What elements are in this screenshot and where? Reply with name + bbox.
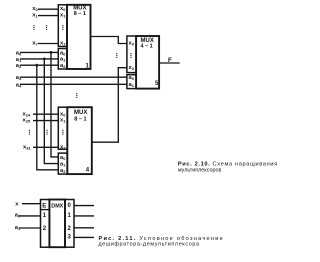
wire x31 to U4 [33, 146, 58, 148]
svg-text:a2: a2 [60, 63, 66, 69]
demux D1 (DMX) [41, 200, 75, 248]
svg-text:8 – 1: 8 – 1 [74, 116, 86, 122]
ellipsis dots wires x24..x31 [46, 130, 47, 135]
svg-text:x1: x1 [32, 13, 38, 19]
wire a1 bus [20, 58, 58, 60]
svg-text:a1: a1 [129, 82, 135, 88]
junction a1 branch [43, 58, 46, 61]
U5 pin dots [130, 53, 131, 58]
U1 pin dots [62, 25, 63, 30]
svg-text:a1: a1 [60, 57, 66, 63]
caption figure 2.11 [99, 236, 224, 248]
U5 pin x0 [129, 41, 160, 88]
ellipsis dots wires x0..x7 [46, 25, 47, 30]
svg-text:4 – 1: 4 – 1 [141, 44, 153, 50]
wire U1 output to U5 x0 [91, 37, 127, 44]
wire a2 vertical to U4 [37, 65, 59, 170]
ellipsis dots between U1 and U4 [76, 93, 77, 98]
svg-text:x0: x0 [129, 41, 135, 47]
label x7 input [32, 41, 38, 47]
wire a0 bus [20, 51, 58, 53]
wire a0 to D1 [19, 215, 41, 217]
svg-text:a4: a4 [16, 82, 22, 88]
wire x0 to U1 [38, 8, 58, 10]
label a3 [16, 75, 22, 81]
svg-text:x25: x25 [23, 118, 31, 124]
wire a3 to U5 [20, 76, 127, 78]
svg-text:x1: x1 [60, 13, 66, 19]
label a4 [16, 82, 22, 88]
wire x to D1 E [22, 203, 41, 205]
svg-text:4: 4 [86, 167, 90, 173]
svg-text:a0: a0 [60, 50, 66, 56]
svg-text:x0: x0 [60, 6, 66, 12]
mux U5 (MUX 4-1, block 5) [127, 36, 159, 89]
ellipsis dots labels x0..x7 [33, 25, 34, 30]
svg-text:0: 0 [68, 203, 72, 209]
svg-text:x24: x24 [23, 111, 31, 117]
svg-text:x7: x7 [60, 144, 66, 150]
wire x7 to U1 [38, 43, 58, 45]
svg-text:8 – 1: 8 – 1 [74, 11, 86, 17]
svg-text:2: 2 [43, 226, 47, 232]
svg-text:x7: x7 [60, 41, 66, 47]
svg-text:E: E [42, 203, 46, 209]
svg-text:a3: a3 [16, 75, 22, 81]
label x25 input [23, 118, 31, 124]
wire a4 to U5 [20, 83, 127, 85]
wire x25 to U4 [33, 120, 58, 122]
wire F output [159, 62, 180, 64]
label x1 input [32, 13, 38, 19]
U4 pin x0 [60, 111, 90, 174]
svg-text:x0: x0 [32, 6, 38, 12]
wire a0 vertical to U4 [51, 52, 58, 156]
svg-text:дешифратора-демультиплексора: дешифратора-демультиплексора [99, 241, 200, 247]
wire U4 output riser to U5 x3 [92, 68, 127, 143]
label x0 input [32, 6, 38, 12]
U5 title MUX 4-1 [141, 38, 154, 50]
mux U1 (MUX 8-1, block 1) [58, 5, 90, 70]
svg-text:1: 1 [43, 213, 47, 219]
wire x24 to U4 [33, 113, 58, 115]
ellipsis dots labels x24..x31 [29, 130, 30, 135]
mux U4 (MUX 8-1, block 4) [58, 107, 92, 174]
svg-text:a0: a0 [60, 155, 66, 161]
svg-text:x3: x3 [129, 65, 135, 71]
svg-text:a1: a1 [16, 57, 22, 63]
svg-text:MUX: MUX [74, 110, 87, 116]
ellipsis dots omitted U5 inputs [116, 53, 117, 58]
wire a1 vertical to U4 [44, 59, 58, 164]
label a0 [16, 50, 22, 56]
wire D1 out3 [74, 236, 94, 238]
svg-text:2: 2 [68, 226, 72, 232]
svg-text:мультиплексоров: мультиплексоров [178, 167, 222, 173]
label a2 [16, 63, 22, 69]
svg-text:F: F [168, 57, 172, 64]
svg-text:Рис. 2.10. Схема наращивания: Рис. 2.10. Схема наращивания [178, 161, 278, 167]
svg-text:a2: a2 [60, 168, 66, 174]
svg-text:1: 1 [68, 213, 72, 219]
label a1 dmx [15, 225, 21, 231]
wire a2 bus [20, 64, 58, 66]
label a1 [16, 57, 22, 63]
D1 E divider [41, 209, 50, 211]
svg-text:DMX: DMX [51, 204, 63, 210]
svg-text:3: 3 [68, 235, 72, 241]
svg-text:a2: a2 [16, 63, 22, 69]
wire D1 out0 [74, 205, 94, 207]
U1 title MUX 8-1 [73, 6, 86, 18]
wire x1 to U1 [38, 15, 58, 17]
wire D1 out1 [74, 215, 94, 217]
svg-text:x0: x0 [60, 111, 66, 117]
caption figure 2.10 [178, 161, 278, 173]
svg-text:a1: a1 [60, 162, 66, 168]
label a0 dmx [15, 213, 21, 219]
svg-text:a0: a0 [129, 75, 135, 81]
label x31 input [23, 144, 31, 150]
svg-text:x31: x31 [23, 144, 31, 150]
junction a0 branch [50, 51, 53, 54]
U1 pin x0 [60, 6, 90, 69]
svg-text:x1: x1 [60, 118, 66, 124]
wire D1 out2 [74, 227, 94, 229]
label x24 input [23, 111, 31, 117]
wire a1 to D1 [19, 227, 41, 229]
U4 title MUX 8-1 [74, 110, 87, 122]
svg-text:x7: x7 [32, 41, 38, 47]
svg-text:x: x [15, 202, 19, 208]
junction a2 branch [35, 64, 38, 67]
U4 pin dots [62, 130, 63, 135]
svg-text:a0: a0 [16, 50, 22, 56]
